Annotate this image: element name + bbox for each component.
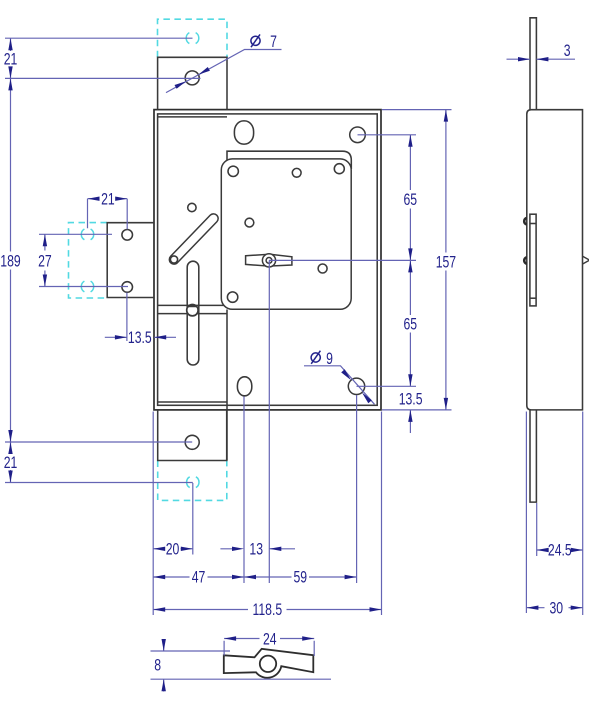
bolt stack (side view) — [530, 214, 536, 306]
dashed hole: top faceplate hole extended — [186, 33, 199, 44]
arrows 189 — [8, 78, 12, 90]
arrows 3 (side) — [518, 57, 530, 61]
cam left wing — [246, 254, 267, 266]
rivet bump upper (side view) — [524, 218, 527, 225]
cam right wing — [271, 254, 292, 266]
bolt slab top edge — [158, 304, 225, 306]
faceplate bottom tab hole (diam 7) — [185, 435, 199, 449]
bolt head (left tab) — [107, 223, 154, 298]
ext lines 8 (detail) — [151, 651, 332, 679]
arrows 8 (detail) — [162, 639, 166, 651]
arrows diam 9 leader — [341, 369, 351, 380]
ext line body left — [525, 412, 527, 614]
phi symbol of diam 7 — [251, 34, 321, 363]
svg-text:157: 157 — [436, 254, 456, 272]
dim line 189 — [10, 78, 12, 442]
dim line 157 — [445, 110, 447, 410]
arrows 30 — [526, 606, 538, 610]
svg-text:118.5: 118.5 — [252, 601, 282, 619]
arrows 13 — [232, 547, 244, 551]
case hole top-right — [350, 127, 366, 143]
arrows 118.5 — [153, 607, 165, 611]
oval hole top — [234, 121, 253, 144]
dim 8 tails (detail) — [163, 642, 165, 692]
ext line hole diam9 down — [356, 395, 358, 583]
svg-text:59: 59 — [293, 569, 307, 587]
dashed rect: faceplate bottom extended position — [158, 461, 227, 501]
arrows 21 above bolt head — [88, 197, 100, 201]
plate hole top-left — [228, 166, 238, 176]
faceplate inner edge behind case top — [158, 116, 227, 118]
arrows 65 lower — [408, 260, 412, 272]
guide slot (vertical capsule) — [187, 261, 199, 365]
back plate (behind cover plate) — [227, 151, 351, 169]
ext line case left bottom — [152, 412, 154, 616]
svg-text:189: 189 — [0, 253, 20, 271]
dim line 3 (side) — [507, 58, 576, 60]
arrows 47-59 — [153, 575, 165, 579]
faceplate top tab hole (diam 7) — [185, 71, 199, 85]
arrows diam 7 leader — [175, 81, 187, 89]
dashed rect: faceplate top extended position — [158, 19, 228, 57]
svg-text:65: 65 — [403, 316, 417, 334]
ext lines 65 — [269, 135, 416, 386]
svg-text:21: 21 — [4, 51, 18, 69]
spindle pointer (side view right edge) — [582, 256, 589, 264]
ext line top tab hole level — [5, 77, 201, 79]
lock case outer outline — [154, 110, 381, 410]
svg-text:21: 21 — [101, 191, 115, 209]
svg-text:30: 30 — [549, 600, 563, 618]
svg-text:27: 27 — [38, 253, 52, 271]
dim line 47-59 — [153, 576, 356, 578]
bolt slab bottom edge — [158, 401, 227, 403]
ext lines 157 — [382, 110, 452, 410]
oval hole bottom — [237, 377, 251, 396]
dashed hole: bolt head lower hole extended — [81, 281, 93, 292]
arrows 13.5 left — [115, 335, 127, 339]
guide pin dark cap — [188, 305, 197, 307]
faceplate bottom tab — [158, 410, 227, 461]
cam square hole — [266, 258, 272, 264]
svg-text:8: 8 — [154, 657, 161, 675]
arrows 21 top-left — [8, 38, 12, 50]
bolt slab second edge — [158, 313, 227, 315]
leader diam 7 — [166, 50, 282, 93]
faceplate strip above body (side view, 3mm) — [530, 18, 536, 110]
bolt stack lower line — [530, 297, 536, 299]
bolt slab right edge — [226, 310, 228, 461]
plate hole top-right — [334, 164, 344, 174]
ext line top cyan hole level — [5, 37, 193, 39]
svg-text:24.5: 24.5 — [548, 542, 572, 560]
phi symbol of diam 9 — [311, 353, 320, 362]
arrows 24.5 — [537, 548, 549, 552]
arrows 65 upper — [408, 135, 412, 147]
dim 13 tails — [220, 548, 295, 550]
dim line 27 — [44, 234, 46, 286]
dashed hole: bottom faceplate hole extended — [187, 477, 199, 488]
cover plate (rounded) — [221, 159, 351, 309]
dim line 30 — [526, 607, 582, 609]
bolt stack upper line — [530, 223, 536, 225]
dim line 118.5 — [153, 609, 381, 611]
svg-text:65: 65 — [403, 191, 417, 209]
ext line cam center down — [268, 260, 270, 583]
bolt head upper hole — [122, 230, 133, 241]
dim line 21 bottom-left — [10, 442, 12, 483]
dim line 21 above bolt head — [88, 198, 128, 200]
faceplate strip below body (side view) — [530, 410, 536, 502]
svg-text:47: 47 — [192, 569, 206, 587]
ext line cyan hole down — [192, 483, 194, 555]
svg-text:3: 3 — [564, 42, 571, 60]
ext line body right — [582, 412, 584, 616]
ext lines 27 — [39, 234, 128, 286]
dim line 65 upper — [409, 135, 411, 261]
arrows 20 — [153, 547, 165, 551]
svg-text:24: 24 — [263, 631, 277, 649]
svg-text:20: 20 — [166, 541, 180, 559]
plate hole bottom-left — [227, 292, 237, 302]
dim line 65 lower — [409, 260, 411, 386]
key cam (front view) — [246, 254, 292, 267]
ext line bottom tab hole level — [5, 441, 192, 443]
detail cam outline (wings + hub union) — [224, 649, 313, 678]
rivet bump lower (side view) — [524, 257, 527, 264]
arrows 24 (detail) — [224, 636, 236, 640]
dashed rect: bolt head extended position — [69, 223, 108, 298]
dim line 24.5 — [537, 549, 583, 551]
lever pivot ring — [170, 256, 177, 263]
svg-text:13.5: 13.5 — [128, 329, 152, 347]
arrows 21 bottom-left — [8, 442, 12, 454]
dashed hole: bolt head upper hole extended — [81, 229, 93, 240]
dim line 21 top-left — [10, 38, 12, 78]
svg-text:7: 7 — [270, 33, 277, 51]
case hole bottom-right (diam 9) — [348, 378, 364, 394]
dim 13.5 right tail — [409, 410, 411, 433]
arrows 27 — [43, 234, 47, 246]
ext line oval bottom — [243, 397, 245, 584]
faceplate top tab — [158, 57, 227, 109]
plate small hole top-center — [292, 168, 301, 177]
cam hub — [262, 254, 275, 267]
svg-text:21: 21 — [4, 454, 18, 472]
detail cam hole — [260, 656, 276, 672]
arrow 13.5 right — [408, 410, 412, 422]
guide pin circle on slot — [187, 305, 198, 316]
bolt head lower hole — [122, 282, 133, 293]
ext line bottom cyan hole level — [5, 482, 193, 484]
plate small hole mid-left — [245, 218, 254, 227]
lock case inner wall — [158, 114, 378, 405]
side body outline — [527, 110, 583, 410]
ext line 13.5 left — [126, 293, 128, 342]
dim 13.5 left tails — [105, 336, 176, 338]
ext lines 24 (detail) — [224, 641, 314, 656]
dim line 20 — [153, 548, 193, 550]
svg-text:9: 9 — [326, 350, 333, 368]
arrows 157 — [444, 110, 448, 122]
plate small hole mid-right — [318, 264, 327, 273]
small pivot hole near lever — [188, 203, 196, 211]
dim line 24 (detail) — [224, 638, 314, 640]
ext line case right bottom — [381, 412, 383, 616]
ext line strip right (24.5) — [536, 503, 538, 556]
leader diam 9 — [304, 366, 375, 405]
svg-text:13: 13 — [249, 541, 263, 559]
lever arm (diagonal capsule) — [170, 219, 213, 264]
svg-text:13.5: 13.5 — [399, 391, 423, 409]
ext lines 21 above bolt head — [88, 199, 128, 230]
